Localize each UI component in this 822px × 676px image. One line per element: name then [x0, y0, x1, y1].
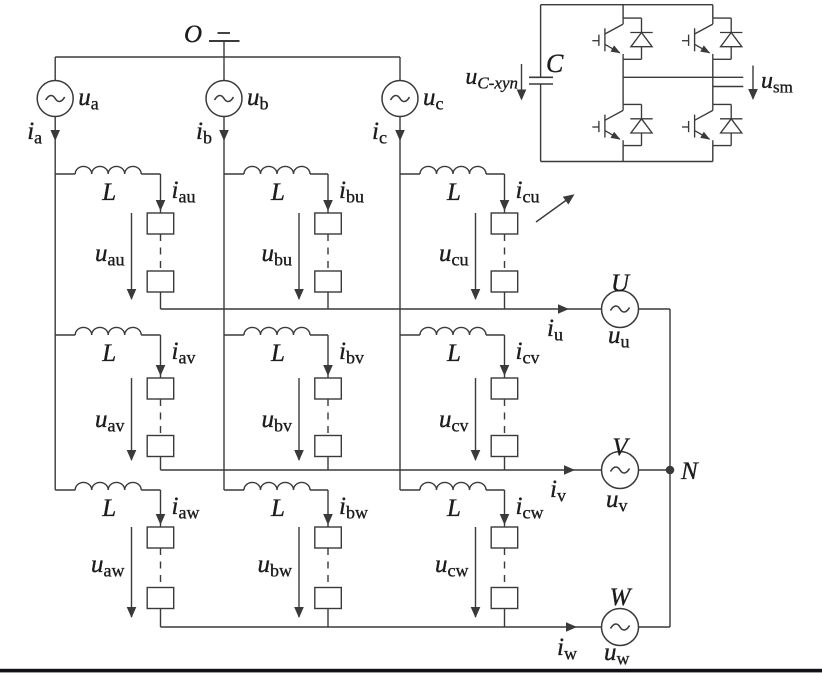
svg-text:C: C: [546, 49, 564, 78]
svg-text:uc: uc: [423, 84, 444, 114]
svg-text:U: U: [611, 270, 631, 297]
svg-text:ubu: ubu: [262, 240, 293, 270]
svg-text:iaw: iaw: [172, 493, 200, 523]
svg-text:L: L: [101, 340, 116, 367]
svg-text:W: W: [610, 584, 633, 611]
svg-text:L: L: [270, 495, 285, 522]
svg-text:icw: icw: [516, 493, 544, 523]
svg-text:uC-xyn: uC-xyn: [465, 64, 518, 93]
svg-text:iv: iv: [550, 476, 566, 506]
svg-text:ub: ub: [247, 84, 269, 114]
svg-text:iu: iu: [547, 315, 563, 345]
svg-text:ic: ic: [372, 118, 387, 148]
svg-text:uav: uav: [95, 406, 125, 436]
svg-text:iav: iav: [172, 338, 196, 368]
svg-text:L: L: [101, 179, 116, 206]
svg-text:iau: iau: [172, 177, 196, 207]
svg-text:O: O: [184, 21, 202, 48]
svg-text:N: N: [680, 458, 699, 485]
svg-text:ibu: ibu: [339, 177, 364, 207]
svg-text:ucw: ucw: [435, 551, 469, 581]
svg-text:uau: uau: [95, 240, 125, 270]
svg-text:ucu: ucu: [439, 240, 469, 270]
svg-text:L: L: [446, 340, 461, 367]
svg-text:ubv: ubv: [262, 406, 293, 436]
svg-text:ubw: ubw: [258, 551, 293, 581]
svg-text:L: L: [101, 495, 116, 522]
svg-text:ibv: ibv: [339, 338, 364, 368]
svg-text:icv: icv: [516, 338, 540, 368]
svg-text:L: L: [270, 179, 285, 206]
svg-text:L: L: [270, 340, 285, 367]
svg-text:iw: iw: [557, 634, 577, 664]
svg-text:icu: icu: [516, 177, 540, 207]
svg-text:L: L: [446, 179, 461, 206]
svg-text:ua: ua: [78, 84, 99, 114]
svg-text:uaw: uaw: [91, 551, 125, 581]
svg-text:L: L: [446, 495, 461, 522]
svg-text:usm: usm: [761, 68, 793, 97]
svg-text:ia: ia: [27, 118, 42, 148]
svg-text:ucv: ucv: [439, 406, 469, 436]
svg-text:ib: ib: [196, 118, 212, 148]
svg-text:uv: uv: [606, 486, 628, 516]
svg-text:ibw: ibw: [339, 493, 368, 523]
